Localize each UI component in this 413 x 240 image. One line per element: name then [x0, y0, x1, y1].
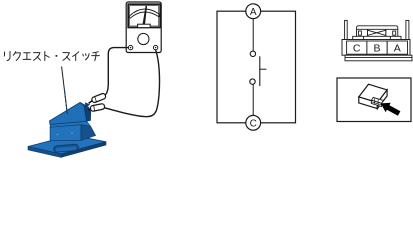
svg-text:C: C	[353, 42, 361, 54]
base plate front-left edge	[28, 147, 61, 158]
leader line from label to switch	[62, 67, 68, 115]
svg-text:C: C	[250, 118, 257, 129]
connector icon plug front face	[371, 100, 381, 106]
connector latch outer	[353, 26, 401, 40]
リ	[5, 52, 11, 61]
wire to terminal C	[252, 84, 254, 115]
ッ	[83, 54, 89, 60]
latch right notch	[393, 31, 396, 35]
test probe upper	[91, 93, 106, 103]
svg-text:A: A	[250, 7, 257, 18]
switch wedge right face	[80, 102, 91, 121]
svg-text:B: B	[373, 42, 380, 54]
latch bowtie left triangle	[368, 30, 377, 35]
latch left notch	[358, 31, 361, 35]
test lead wire right (to lower probe)	[105, 50, 160, 117]
switch actuator bar	[259, 56, 261, 86]
エ	[23, 53, 31, 60]
switch contact nib	[85, 103, 90, 107]
test lead wire left (to upper probe)	[105, 48, 128, 96]
switch wedge slanted face	[49, 102, 86, 124]
needle pivot base	[138, 24, 151, 27]
test probe lower	[90, 103, 105, 111]
switch contact upper	[250, 51, 255, 56]
flange inner line	[345, 56, 412, 58]
チ	[92, 52, 100, 61]
switch contact lower	[250, 79, 255, 84]
screw highlight dots on block	[57, 134, 59, 136]
switch housing block top face	[50, 121, 91, 127]
wire from terminal A down	[252, 19, 254, 51]
connector icon left face	[359, 97, 378, 109]
terminal cavity C	[347, 41, 367, 54]
base plate front-right edge	[61, 142, 106, 158]
terminal cavity A	[387, 41, 407, 54]
connector bottom flange	[345, 55, 412, 61]
base plate recess	[53, 144, 78, 153]
connector view: left tab	[345, 20, 348, 39]
ト	[45, 52, 50, 61]
label リクエスト・スイッチ (request switch)	[5, 52, 100, 61]
meter terminal left	[128, 45, 132, 49]
ス	[63, 53, 70, 61]
connector body row	[342, 40, 410, 56]
svg-text:A: A	[394, 42, 401, 54]
switch housing block front face	[50, 125, 81, 141]
latch lower ticks	[364, 36, 391, 39]
inset icon frame	[337, 78, 411, 122]
leader line tip on wedge	[65, 90, 68, 114]
・	[55, 55, 57, 57]
terminal C	[246, 115, 261, 130]
connector latch band top line	[357, 29, 398, 36]
ク	[13, 52, 20, 61]
meter terminal right	[153, 45, 157, 49]
switch housing block right face	[81, 125, 96, 141]
multimeter body	[126, 2, 161, 53]
terminal A	[246, 4, 261, 19]
latch bowtie right triangle	[377, 30, 386, 35]
meter needle	[142, 5, 147, 26]
latch band end lines	[368, 29, 386, 36]
probe tip lower	[88, 108, 91, 111]
connector view: right tab	[406, 20, 409, 39]
schematic box	[217, 11, 296, 123]
terminal cavity B	[367, 41, 387, 54]
イ	[73, 52, 79, 61]
connector icon top face	[359, 84, 387, 102]
connector icon end face	[377, 90, 387, 109]
meter scale arc	[129, 9, 159, 18]
plug grid lines	[371, 98, 381, 105]
probe tip upper	[89, 101, 93, 104]
meter display window	[128, 4, 160, 27]
meter dial knob	[138, 33, 149, 44]
connector icon plug top face	[371, 97, 383, 103]
direction arrow	[381, 103, 401, 116]
switch actuator tick	[260, 68, 267, 70]
request switch: base plate top face	[28, 135, 106, 154]
ス	[34, 53, 41, 61]
